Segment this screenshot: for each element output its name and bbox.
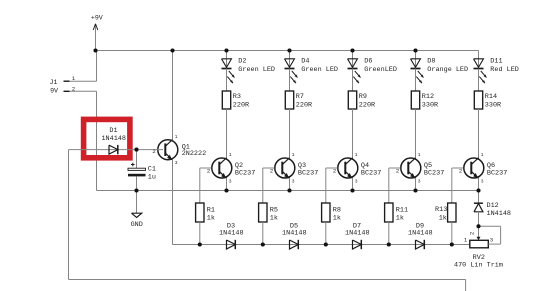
svg-text:D2: D2: [238, 57, 246, 65]
svg-text:1k: 1k: [439, 214, 447, 222]
svg-text:R11: R11: [396, 207, 408, 215]
svg-text:3: 3: [490, 236, 493, 243]
svg-text:R13: R13: [435, 206, 447, 214]
svg-text:1u: 1u: [148, 174, 156, 182]
svg-text:GreenLED: GreenLED: [364, 66, 397, 74]
svg-text:3: 3: [229, 179, 232, 185]
svg-text:1: 1: [481, 152, 484, 158]
svg-text:9V: 9V: [50, 87, 58, 94]
svg-text:Green LED: Green LED: [301, 66, 338, 74]
svg-text:220R: 220R: [233, 102, 249, 110]
svg-text:D11: D11: [490, 57, 502, 65]
svg-text:3: 3: [355, 179, 358, 185]
svg-text:R8: R8: [333, 207, 341, 215]
svg-text:2N2222: 2N2222: [182, 150, 206, 158]
svg-text:D6: D6: [364, 57, 372, 65]
svg-text:R12: R12: [422, 93, 434, 101]
svg-text:470 Lin Trim: 470 Lin Trim: [454, 262, 503, 270]
svg-text:R3: R3: [233, 93, 241, 101]
svg-text:BC237: BC237: [487, 170, 507, 178]
svg-text:1N4148: 1N4148: [101, 135, 125, 143]
svg-text:1k: 1k: [396, 215, 404, 223]
svg-text:1: 1: [355, 152, 358, 158]
svg-text:2: 2: [459, 168, 462, 175]
svg-text:D4: D4: [301, 57, 309, 65]
svg-text:330R: 330R: [485, 102, 501, 110]
svg-text:R7: R7: [296, 93, 304, 101]
svg-text:2: 2: [72, 85, 75, 92]
svg-text:1: 1: [229, 152, 232, 158]
svg-text:1N4148: 1N4148: [282, 230, 306, 238]
svg-text:Green LED: Green LED: [238, 66, 275, 74]
svg-text:220R: 220R: [359, 102, 375, 110]
svg-text:2: 2: [396, 168, 399, 175]
svg-text:1N4148: 1N4148: [219, 230, 243, 238]
svg-text:R5: R5: [270, 207, 278, 215]
svg-text:330R: 330R: [422, 102, 438, 110]
svg-text:2: 2: [270, 168, 273, 175]
svg-text:GND: GND: [131, 221, 143, 229]
svg-text:2: 2: [152, 148, 155, 155]
svg-text:1N4148: 1N4148: [487, 210, 511, 218]
svg-text:1k: 1k: [333, 215, 341, 223]
svg-text:3: 3: [481, 179, 484, 185]
svg-text:+9V: +9V: [91, 14, 103, 21]
svg-text:J1: J1: [50, 79, 58, 86]
svg-text:1: 1: [292, 152, 295, 158]
svg-text:1N4148: 1N4148: [408, 230, 432, 238]
svg-text:1: 1: [175, 134, 178, 140]
svg-text:R14: R14: [485, 93, 497, 101]
svg-text:BC237: BC237: [361, 170, 381, 178]
svg-text:1: 1: [418, 152, 421, 158]
svg-text:BC237: BC237: [424, 170, 444, 178]
svg-text:D1: D1: [109, 127, 117, 135]
svg-text:2: 2: [468, 232, 475, 235]
svg-text:R9: R9: [359, 93, 367, 101]
svg-text:C1: C1: [148, 166, 156, 174]
svg-text:3: 3: [175, 160, 178, 166]
svg-text:D8: D8: [427, 57, 435, 65]
svg-text:BC237: BC237: [235, 170, 255, 178]
svg-text:3: 3: [418, 179, 421, 185]
svg-text:1N4148: 1N4148: [345, 230, 369, 238]
svg-text:2: 2: [333, 168, 336, 175]
svg-text:R1: R1: [207, 207, 215, 215]
svg-text:2: 2: [207, 168, 210, 175]
svg-text:Orange LED: Orange LED: [427, 66, 468, 74]
svg-text:Red LED: Red LED: [490, 66, 519, 74]
svg-text:3: 3: [292, 179, 295, 185]
svg-text:1k: 1k: [207, 215, 215, 223]
svg-text:BC237: BC237: [298, 170, 318, 178]
svg-text:220R: 220R: [296, 102, 312, 110]
svg-text:1k: 1k: [270, 215, 278, 223]
